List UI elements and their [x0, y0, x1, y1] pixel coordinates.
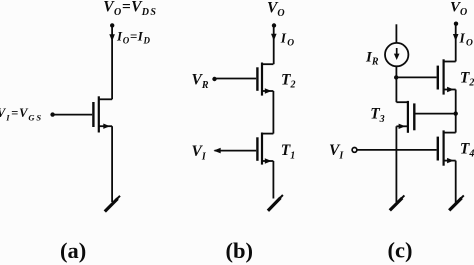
ground right (c) — [449, 195, 464, 210]
junction dot T3 gate node (c) — [454, 111, 458, 115]
wire drain T2 (c) — [455, 24, 457, 62]
node dot output (c) — [454, 22, 458, 26]
node dot gate (a) — [50, 112, 54, 116]
label Vo=Vds (a) — [103, 0, 156, 18]
junction dot bias node (c) — [394, 75, 398, 79]
label Vr (b) — [192, 72, 209, 91]
wire Vi to T4 gate (c) — [357, 149, 437, 151]
svg-text:(a): (a) — [60, 238, 86, 263]
transistor Q (a) — [93, 96, 112, 132]
current arrow Io (c) — [453, 34, 459, 41]
ground (a) — [105, 196, 120, 212]
ground (b) — [268, 195, 283, 211]
caption (a) — [60, 238, 86, 263]
label Io (b) — [280, 30, 296, 48]
label Vo (b) — [267, 0, 285, 19]
node dot output (a) — [110, 23, 114, 27]
wire T3 source down to ground (c) — [395, 126, 397, 202]
wire drain (a) — [111, 25, 113, 99]
wire source (a) — [111, 126, 113, 202]
wire gate T2 (b) — [215, 78, 256, 80]
wire drain T2 (b) — [273, 26, 275, 65]
node dot output (b) — [272, 23, 276, 27]
caption (c) — [388, 238, 413, 263]
label Io (c) — [459, 30, 474, 48]
ground left (c) — [390, 195, 405, 210]
wire gate T3 to node (c) — [416, 113, 456, 115]
transistor T2 (c) — [438, 59, 456, 94]
current arrow Io (a) — [109, 34, 115, 41]
wire T2 source to T4 drain (c) — [455, 90, 457, 133]
transistor T4 (c) — [438, 130, 456, 165]
wire bias node to T2 gate (c) — [396, 76, 436, 78]
label Ir (c) — [365, 49, 379, 67]
transistor T3 (c) — [396, 101, 414, 133]
transistor T1 (b) — [257, 133, 273, 165]
label T1 (b) — [281, 142, 295, 161]
wire supply lead current source (c) — [395, 24, 397, 43]
terminal circle Vi (c) — [352, 148, 357, 153]
svg-text:(c): (c) — [388, 238, 413, 263]
wire gate T1 (b) — [215, 150, 257, 152]
label T2 (b) — [281, 71, 295, 90]
label T3 (c) — [370, 106, 384, 125]
label Io=Id (a) — [116, 28, 150, 45]
wire gate (a) — [53, 114, 93, 116]
caption (b) — [226, 238, 254, 263]
label Vi (b) — [192, 143, 207, 162]
label T2 (c) — [460, 69, 474, 88]
wire T2 source to T1 drain (b) — [272, 91, 274, 134]
transistor T2 (b) — [257, 63, 273, 96]
svg-text:(b): (b) — [226, 238, 254, 263]
wire source T1 (b) — [272, 161, 274, 199]
label Vi=Vgs (a) — [0, 106, 41, 122]
wire current source to node (c) — [395, 66, 397, 102]
input arrow Vi (b) — [214, 148, 221, 154]
wire source T4 (c) — [455, 161, 457, 203]
current source Ir (c) — [385, 43, 408, 66]
label Vo (c) — [450, 0, 467, 18]
node dot Vr (b) — [212, 77, 216, 81]
label T4 (c) — [460, 140, 474, 159]
label Vi (c) — [329, 142, 344, 161]
current arrow Io (b) — [271, 34, 277, 41]
